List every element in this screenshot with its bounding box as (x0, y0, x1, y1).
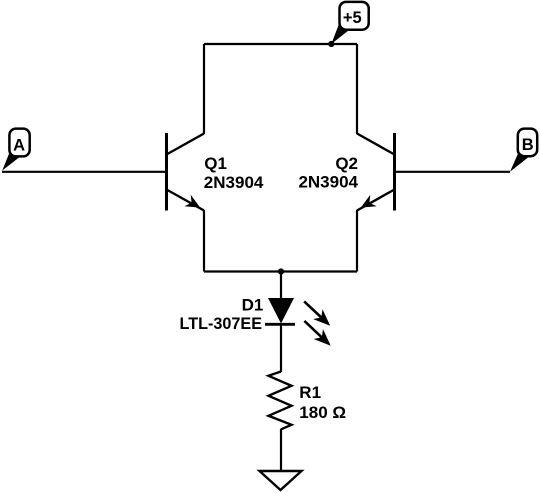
node A callout (2, 129, 29, 171)
wire B to Q2 base (395, 171, 511, 173)
svg-text:+5: +5 (343, 9, 362, 27)
node emitter junction dot (278, 268, 284, 274)
wire Q1 emitter vertical (203, 210, 205, 272)
svg-text:2N3904: 2N3904 (204, 173, 264, 192)
svg-text:LTL-307EE: LTL-307EE (180, 315, 263, 333)
svg-text:D1: D1 (242, 295, 264, 314)
wire LED cathode to resistor (280, 324, 282, 372)
svg-text:Q2: Q2 (335, 154, 358, 173)
ground (260, 471, 302, 490)
wire resistor to ground (280, 429, 282, 471)
transistor Q2 (357, 133, 395, 211)
wire Q1 collector vertical (203, 44, 205, 134)
svg-text:R1: R1 (299, 383, 321, 402)
resistor R1 (269, 372, 292, 430)
transistor Q1 (167, 133, 205, 211)
wire A to Q1 base (2, 171, 167, 173)
wire Q2 collector vertical (356, 44, 358, 134)
wire top rail (204, 43, 357, 45)
wire bottom rail joining emitters (204, 270, 357, 272)
node +5 callout (331, 2, 368, 44)
node +5 junction dot (328, 41, 334, 47)
svg-text:2N3904: 2N3904 (298, 173, 358, 192)
node B callout (510, 129, 537, 172)
wire junction to LED anode (280, 272, 282, 300)
svg-text:180 Ω: 180 Ω (299, 403, 346, 422)
svg-text:Q1: Q1 (204, 154, 227, 173)
diode D1 LED (265, 298, 331, 346)
wire Q2 emitter vertical (356, 210, 358, 272)
svg-text:B: B (522, 136, 534, 154)
svg-text:A: A (13, 136, 25, 154)
